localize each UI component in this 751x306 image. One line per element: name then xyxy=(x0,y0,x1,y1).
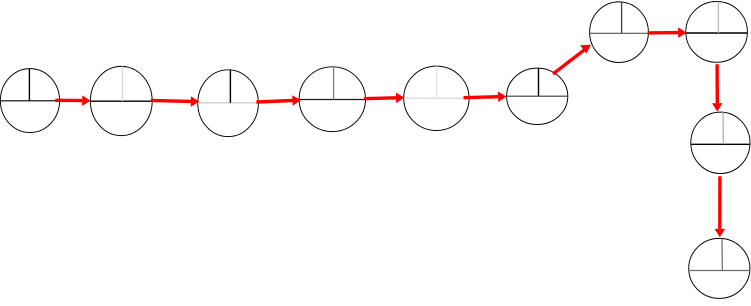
arrow 7 to 8 xyxy=(648,27,687,38)
arrow 5 to 6 xyxy=(464,92,507,103)
node 2 xyxy=(90,66,152,135)
node 8 xyxy=(686,2,748,63)
arrow 1 to 2 xyxy=(55,95,90,106)
arrow 4 to 5 xyxy=(364,93,405,104)
arrow 8 to 9 xyxy=(712,64,723,111)
arrow 6 to 7 xyxy=(553,45,591,74)
node 7 xyxy=(590,2,649,63)
node 6 xyxy=(507,68,568,124)
node 4 xyxy=(299,67,365,132)
arrow 9 to 10 xyxy=(715,176,726,237)
node 9 xyxy=(691,112,750,173)
node 3 xyxy=(198,70,259,137)
arrow 2 to 3 xyxy=(151,96,200,107)
node 5 xyxy=(404,66,469,130)
node 10 xyxy=(689,238,750,298)
node 1 xyxy=(0,69,59,133)
arrow 3 to 4 xyxy=(256,95,301,106)
